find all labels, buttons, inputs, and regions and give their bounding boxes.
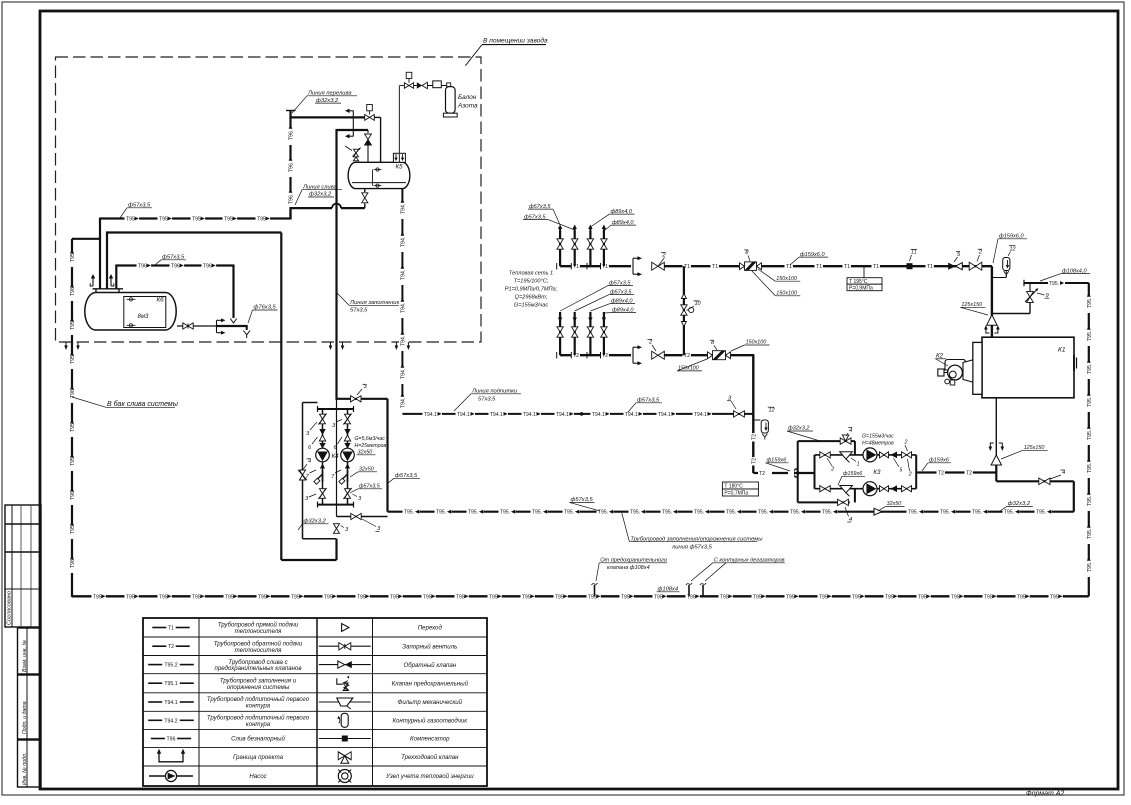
svg-text:T95.: T95. (1087, 298, 1093, 308)
boundary marker on T2 (632, 347, 634, 363)
pipe T96 elbow to tank (115, 265, 117, 290)
legend symbol heat meter (338, 770, 351, 783)
pipe T2 corner down (752, 355, 754, 420)
svg-text:T95.: T95. (790, 510, 800, 516)
svg-text:T94.1: T94.1 (490, 412, 503, 418)
svg-text:T95: T95 (126, 217, 135, 223)
pipe drain line from K5 (291, 207, 365, 209)
svg-text:T96: T96 (138, 264, 147, 270)
pressure regulator valve (345, 146, 352, 151)
svg-text:T95: T95 (621, 594, 630, 600)
svg-text:T2: T2 (759, 471, 765, 477)
pipe T95.1 fill-drain line (388, 511, 1074, 513)
boiler K1 body (982, 337, 1074, 398)
legend symbol three-way valve (338, 752, 345, 760)
valve 4 on bypass (299, 470, 305, 475)
svg-text:2: 2 (978, 250, 983, 256)
svg-text:T95.: T95. (972, 510, 982, 516)
svg-text:Н=48метров: Н=48метров (862, 441, 894, 447)
svg-text:T1: T1 (927, 264, 933, 270)
svg-text:T95.: T95. (564, 510, 574, 516)
valve 3 on T94.1 (734, 411, 739, 417)
svg-text:T95.: T95. (1087, 463, 1093, 473)
svg-text:Контурный газоотводчик: Контурный газоотводчик (392, 718, 468, 725)
tank K6 body (85, 293, 176, 331)
pump branch K3-lower outlet valve (902, 486, 907, 492)
T96 discharge arrowhead (230, 319, 236, 324)
pipe T1 supply header (560, 265, 631, 267)
svg-text:T94.1: T94.1 (556, 412, 569, 418)
svg-text:T95: T95 (159, 594, 168, 600)
svg-text:T95: T95 (588, 594, 597, 600)
svg-text:T2: T2 (168, 644, 174, 650)
boundary arrows at boiler outlet (990, 443, 994, 447)
svg-text:T95: T95 (258, 594, 267, 600)
K3 left manifold (814, 455, 816, 489)
svg-text:T2: T2 (938, 471, 944, 477)
boundary arrows on filling line (330, 342, 332, 346)
svg-text:T95: T95 (753, 594, 762, 600)
svg-text:Р=0,9МПа: Р=0,9МПа (849, 285, 873, 291)
pipe boiler outlet down (995, 398, 997, 459)
vessel K5 body (348, 162, 410, 188)
svg-text:T96: T96 (203, 264, 212, 270)
svg-text:клапана ф108х4: клапана ф108х4 (607, 565, 650, 571)
svg-text:T1: T1 (786, 264, 792, 270)
svg-text:Трехходовой клапан: Трехходовой клапан (401, 754, 459, 761)
svg-text:3: 3 (364, 384, 368, 390)
pipe left drain riser connection (72, 238, 101, 240)
svg-text:G=155м3/час: G=155м3/час (514, 303, 548, 309)
reducer 125x150 at boiler outlet (991, 455, 1001, 465)
boundary arrows on drain riser (65, 342, 67, 346)
svg-text:4: 4 (849, 428, 852, 434)
svg-text:7: 7 (331, 474, 335, 480)
pipe T94 vertical dashed (401, 189, 403, 413)
svg-text:2: 2 (648, 340, 653, 346)
pump branch K4-left pump (319, 443, 325, 449)
T2 riser 2 (574, 312, 576, 355)
stamp box Podp i data (18, 675, 42, 739)
pipe right drain riser (1088, 283, 1090, 596)
svg-text:T95: T95 (126, 594, 135, 600)
svg-text:T95: T95 (390, 594, 399, 600)
svg-text:T94.: T94. (400, 237, 406, 247)
svg-text:T1: T1 (712, 264, 718, 270)
nitrogen gauge (427, 85, 432, 87)
svg-text:2: 2 (904, 440, 908, 446)
boiler K1 front section (973, 342, 982, 394)
svg-text:T95.: T95. (908, 510, 918, 516)
stubs from degassers (688, 585, 690, 596)
svg-text:T95.: T95. (1087, 496, 1093, 506)
svg-text:T95.: T95. (1087, 529, 1093, 539)
valve on tank outlet (183, 323, 188, 329)
svg-text:10: 10 (695, 301, 702, 307)
svg-text:T95.1: T95.1 (164, 681, 177, 687)
svg-text:3: 3 (358, 496, 362, 502)
svg-text:T95: T95 (819, 594, 828, 600)
svg-text:линия ф57х3,5: линия ф57х3,5 (671, 544, 713, 550)
tank K6 level taps (129, 298, 132, 301)
svg-text:T95: T95 (159, 217, 168, 223)
tank K6 level gauge box (124, 297, 166, 328)
svg-text:T95: T95 (555, 594, 564, 600)
svg-text:T95: T95 (70, 253, 76, 262)
svg-text:Н=25метров: Н=25метров (355, 443, 387, 449)
svg-text:Обратный клапан: Обратный клапан (403, 662, 456, 669)
pipe pump box right side (386, 399, 388, 512)
svg-text:Р1=0,9МПа/0,7МПа;: Р1=0,9МПа/0,7МПа; (505, 287, 558, 293)
svg-text:В помещении завода: В помещении завода (483, 37, 548, 45)
outer loop of K4 (280, 233, 282, 561)
svg-text:Инв. № подл.: Инв. № подл. (22, 753, 28, 785)
svg-text:T95: T95 (1050, 594, 1059, 600)
svg-text:T96: T96 (70, 287, 76, 296)
arrow stub upper (348, 110, 353, 112)
svg-text:Клапан предохраниельный: Клапан предохраниельный (392, 681, 469, 688)
pump branch K4-right check valve (344, 429, 350, 435)
svg-text:T96: T96 (70, 389, 76, 398)
svg-text:T96.: T96. (289, 162, 295, 172)
K3 right manifold (915, 455, 917, 489)
filter 8 on T2 (708, 352, 713, 359)
pipe T94.1 horizontal (402, 413, 754, 415)
svg-text:T94.1: T94.1 (424, 412, 437, 418)
valve 3 on pump box top (351, 396, 356, 402)
svg-text:T95.: T95. (1049, 281, 1059, 287)
svg-text:К6: К6 (157, 297, 165, 304)
svg-text:G=155м3/час: G=155м3/час (862, 434, 894, 440)
svg-text:T95.: T95. (940, 510, 950, 516)
bypass valve row under pump box (337, 516, 388, 518)
svg-text:T95: T95 (489, 594, 498, 600)
svg-text:T95: T95 (522, 594, 531, 600)
svg-text:T95.: T95. (1087, 331, 1093, 341)
pump branch K4-left top valve (320, 414, 326, 419)
pump branch K3-lower pump (863, 482, 877, 496)
svg-text:T94.1: T94.1 (658, 412, 671, 418)
pump branch K4-left outlet cone (320, 464, 325, 469)
T2 riser 1 (559, 312, 561, 355)
pipe T2 return header (560, 354, 631, 356)
pipe T96 drop to funnel (232, 265, 234, 319)
tank K6 top fitting (93, 288, 124, 290)
pipe T1 to boiler (664, 265, 992, 267)
svg-text:57х3,5: 57х3,5 (478, 397, 496, 403)
svg-text:T96: T96 (70, 559, 76, 568)
svg-text:T1: T1 (816, 264, 822, 270)
svg-text:Т 180°С: Т 180°С (724, 484, 743, 490)
svg-text:T95.: T95. (1004, 510, 1014, 516)
svg-text:T95: T95 (357, 594, 366, 600)
pump branch K4-right pump (344, 443, 350, 449)
svg-text:Подп. и дата: Подп. и дата (22, 701, 28, 734)
svg-text:T94.: T94. (400, 369, 406, 379)
pipe T96 drain header (116, 264, 233, 266)
svg-text:T95.: T95. (726, 510, 736, 516)
svg-text:предохранительных клапанов: предохранительных клапанов (214, 665, 301, 672)
nitrogen pipe (398, 86, 400, 163)
svg-text:T96: T96 (70, 491, 76, 500)
temperature pressure box T2 (722, 482, 758, 489)
pump branch K4-right pipe (347, 409, 349, 505)
svg-text:Т 195°С: Т 195°С (849, 279, 868, 285)
stamp box Soglasovano (5, 505, 41, 627)
svg-text:Компенсатор: Компенсатор (410, 736, 450, 743)
pump branch K3-lower strainer (840, 486, 853, 493)
svg-text:T2: T2 (751, 458, 757, 464)
svg-text:T95: T95 (918, 594, 927, 600)
svg-text:К3: К3 (873, 469, 881, 476)
legend symbol check valve (319, 664, 371, 666)
svg-text:Балон: Балон (458, 94, 477, 101)
stub from safety valves (594, 585, 596, 596)
pump branch K4-right strainer (347, 470, 349, 482)
svg-text:теплоносителя: теплоносителя (235, 628, 283, 635)
legend boundary symbol (159, 752, 183, 762)
svg-text:T95.: T95. (468, 510, 478, 516)
pipe filling line vertical (335, 129, 337, 400)
pump branch K3-upper outlet valve (902, 452, 907, 458)
pump branch K4-left bottom valve (320, 489, 326, 494)
svg-text:T2: T2 (966, 471, 972, 477)
svg-text:6: 6 (308, 445, 312, 451)
svg-text:Фильтр механический: Фильтр механический (398, 699, 463, 706)
pump branch headers (318, 408, 354, 410)
boundary arrows on T94 (395, 342, 397, 346)
T2 riser 4 (603, 312, 605, 355)
K5 drain valve (364, 189, 366, 192)
compensator 11 on T1 (907, 263, 913, 269)
pump branch K4-left check valve (319, 429, 325, 435)
pump branch K3-upper pump (863, 448, 877, 462)
svg-text:3: 3 (345, 527, 349, 533)
pipe T1 down to boiler (991, 266, 993, 337)
svg-text:T95: T95 (93, 594, 102, 600)
stamp box Vzam inv (18, 628, 42, 674)
svg-text:T95.: T95. (1087, 364, 1093, 374)
pump branch K4-right outlet cone (345, 464, 350, 469)
legend symbol filter (319, 701, 371, 703)
pump branch K3-lower check valve (891, 485, 898, 492)
svg-text:T95.: T95. (662, 510, 672, 516)
arrow stub lower (348, 135, 353, 137)
burner K2 (945, 360, 968, 371)
svg-text:T95: T95 (1017, 594, 1026, 600)
svg-text:T95: T95 (654, 594, 663, 600)
svg-text:T95.: T95. (532, 510, 542, 516)
pump branch K4-right bottom valve (345, 489, 351, 494)
pipe T2 into K3 (753, 472, 814, 474)
pipe overflow riser lower part (289, 207, 291, 220)
svg-text:Азота: Азота (457, 103, 478, 110)
legend symbol compensator (319, 738, 371, 740)
K3 bottom bypass (798, 501, 850, 503)
svg-text:4: 4 (308, 459, 311, 465)
stamp box Inv N podl (18, 740, 42, 787)
svg-text:T95.: T95. (1087, 397, 1093, 407)
svg-text:T95.2: T95.2 (164, 663, 177, 669)
svg-text:К5: К5 (396, 164, 404, 171)
svg-text:T95: T95 (192, 217, 201, 223)
pipe T95 horizontal to tank (100, 217, 291, 219)
svg-text:К4: К4 (332, 453, 340, 460)
svg-text:T95.: T95. (758, 510, 768, 516)
boundary marker at tank outlet (216, 320, 218, 332)
svg-text:8: 8 (711, 340, 715, 346)
svg-text:5: 5 (899, 467, 903, 473)
tank K6 vent arrows (92, 277, 94, 286)
svg-text:T95.: T95. (1036, 510, 1046, 516)
svg-text:T1: T1 (873, 264, 879, 270)
check valve 5 on T1 (948, 263, 955, 270)
air separator 12 on T2 drop (752, 420, 754, 473)
nitrogen valve with actuator (404, 83, 409, 89)
check valve vertical to K5 (367, 130, 369, 133)
temperature pressure box T1 (863, 266, 865, 278)
svg-text:Узел учета тепловой энергии: Узел учета тепловой энергии (385, 773, 474, 780)
T1 riser 4 (603, 231, 605, 266)
reducer 125x150 at boiler inlet (987, 315, 997, 325)
pump branch K4-right top valve (345, 414, 351, 419)
T1 riser 2 (574, 231, 576, 266)
svg-text:Q=2968кВт;: Q=2968кВт; (515, 295, 548, 301)
svg-text:T95: T95 (257, 217, 266, 223)
svg-text:T94.: T94. (400, 204, 406, 214)
drain valve on mid vertical (334, 524, 340, 529)
svg-text:В бак слива системы: В бак слива системы (107, 400, 179, 408)
pipe tank outlet (177, 325, 217, 327)
pipe T2 to filter (664, 354, 754, 356)
pump branch K3-lower flex (880, 486, 885, 492)
svg-text:8м3: 8м3 (138, 314, 149, 320)
svg-text:T94.2: T94.2 (164, 718, 177, 724)
svg-text:T96: T96 (167, 737, 176, 743)
svg-text:T95: T95 (224, 217, 233, 223)
legend symbol safety valve (337, 678, 343, 684)
pump branch K3-upper inlet valve (820, 452, 825, 458)
svg-text:8: 8 (745, 250, 749, 256)
svg-text:T1: T1 (168, 626, 174, 632)
pipe T95 from safety valve (1024, 282, 1089, 284)
K5 level gauge (372, 170, 374, 186)
legend symbol valve (319, 645, 371, 647)
T1 riser 1 (559, 231, 561, 266)
pipe elbow down to tank vent (99, 218, 101, 290)
reducer 32x50 on T95.1 (874, 508, 882, 515)
svg-text:T95: T95 (192, 594, 201, 600)
svg-text:T94.1: T94.1 (625, 412, 638, 418)
svg-text:11: 11 (911, 250, 917, 256)
svg-text:T95: T95 (720, 594, 729, 600)
svg-text:Р=0,7МПа: Р=0,7МПа (724, 491, 748, 497)
svg-text:T95: T95 (324, 594, 333, 600)
svg-text:T95.: T95. (1087, 562, 1093, 572)
boundary marker on T1 (632, 258, 634, 274)
svg-text:Формат А2: Формат А2 (1026, 791, 1064, 798)
pump branch K3-upper pipe (815, 454, 917, 456)
svg-text:контура: контура (246, 703, 271, 710)
boiler K1 right stub (1073, 355, 1075, 371)
svg-text:опоржнения системы: опоржнения системы (227, 684, 290, 691)
svg-text:Т=195/100°С;: Т=195/100°С; (514, 279, 549, 285)
three-way valve 4 top (840, 438, 845, 444)
air separator 12 at T1 corner (992, 277, 1006, 279)
legend line symbols (152, 627, 166, 629)
svg-text:3: 3 (332, 423, 336, 429)
svg-text:T95.: T95. (1087, 430, 1093, 440)
pump branch K3-lower pipe (815, 488, 917, 490)
pump branch K3-upper check valve (891, 452, 898, 459)
svg-text:T94.: T94. (400, 398, 406, 408)
overflow riser top cap (286, 110, 296, 112)
svg-text:T2: T2 (751, 434, 757, 440)
K5 breather box (393, 153, 405, 162)
svg-text:T95: T95 (852, 594, 861, 600)
svg-text:12: 12 (769, 408, 775, 414)
svg-text:T94.: T94. (400, 270, 406, 280)
svg-text:T95.: T95. (436, 510, 446, 516)
pipe T95 main drain bottom (72, 595, 1089, 597)
svg-text:T95: T95 (423, 594, 432, 600)
valve 2 on T1 (652, 262, 658, 270)
svg-text:Насос: Насос (249, 773, 266, 780)
svg-text:T95.: T95. (630, 510, 640, 516)
drain collector pipe (217, 325, 248, 327)
svg-text:T95: T95 (291, 594, 300, 600)
nitrogen pressure reducer (414, 85, 417, 87)
svg-text:T95: T95 (456, 594, 465, 600)
pipe overflow riser T96 (289, 111, 291, 220)
svg-text:T96: T96 (171, 264, 180, 270)
nitrogen cylinder (448, 86, 450, 87)
pump branch K3-upper strainer (840, 452, 853, 459)
three-way regulating valve 10 (681, 305, 687, 310)
svg-text:T95: T95 (885, 594, 894, 600)
svg-text:T94.1: T94.1 (592, 412, 605, 418)
svg-text:T1: T1 (844, 264, 850, 270)
svg-text:T95.: T95. (694, 510, 704, 516)
svg-text:1: 1 (857, 462, 860, 468)
pump branch K3-lower inlet valve (820, 486, 825, 492)
valve 2 on T1 right (969, 262, 975, 270)
svg-text:T95: T95 (70, 423, 76, 432)
svg-text:T95: T95 (786, 594, 795, 600)
svg-text:T95.: T95. (822, 510, 832, 516)
valve with actuator on overflow (365, 115, 370, 121)
svg-text:T95.: T95. (500, 510, 510, 516)
svg-text:3: 3 (306, 431, 310, 437)
svg-text:57х3,5: 57х3,5 (350, 308, 368, 314)
flow orifice 8 on T1 (740, 263, 745, 270)
svg-text:Слив безнапорный: Слив безнапорный (231, 736, 285, 743)
svg-text:T95: T95 (984, 594, 993, 600)
svg-text:T94.1: T94.1 (694, 412, 707, 418)
pump branch K4-left strainer (322, 470, 324, 482)
factory boundary dashed box (56, 57, 482, 342)
svg-text:T96.: T96. (289, 130, 295, 140)
pipe T2 from boiler (995, 465, 997, 481)
boundary arrows at boiler inlet (986, 329, 990, 333)
svg-text:3: 3 (377, 526, 381, 532)
valve 2 on T2 (652, 351, 658, 359)
svg-text:Переход: Переход (418, 625, 443, 632)
svg-text:T95: T95 (70, 457, 76, 466)
svg-text:контура: контура (246, 721, 271, 728)
svg-text:Согласовано: Согласовано (7, 591, 13, 625)
cross connection T1-T2 (683, 266, 685, 355)
